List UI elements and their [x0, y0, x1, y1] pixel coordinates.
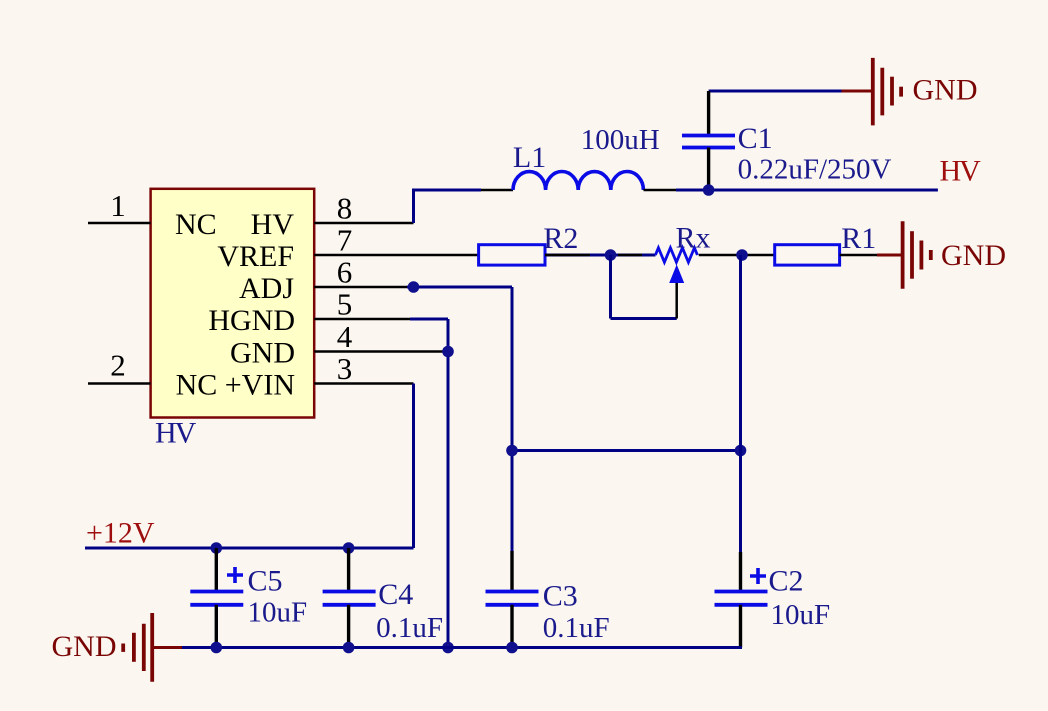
svg-text:GND: GND [913, 74, 978, 107]
svg-text:VREF: VREF [217, 240, 294, 273]
C3 bottom lead [510, 605, 513, 648]
ground GND right lead [877, 254, 903, 257]
C5 plus sign [227, 567, 243, 583]
wire HV net to label [676, 189, 938, 192]
svg-text:0.1uF: 0.1uF [543, 612, 610, 644]
capacitor C2 (polarized) [715, 592, 768, 605]
svg-text:R2: R2 [543, 222, 578, 255]
junction C1 / HV row [703, 184, 715, 196]
svg-text:7: 7 [337, 223, 353, 258]
C5 bottom lead [215, 605, 218, 648]
resistor R1 [775, 245, 840, 265]
wire +12V row [85, 547, 414, 550]
svg-text:HGND: HGND [208, 304, 295, 337]
C2 plus sign [750, 568, 766, 584]
svg-text:C3: C3 [543, 580, 578, 613]
svg-text:0.22uF/250V: 0.22uF/250V [738, 154, 892, 186]
capacitor C3 [486, 592, 539, 605]
pin 8 stub [314, 222, 413, 225]
svg-text:C4: C4 [378, 578, 413, 611]
svg-text:L1: L1 [513, 141, 546, 174]
ground GND right [903, 221, 931, 289]
svg-text:8: 8 [337, 191, 353, 226]
potentiometer Rx zigzag [655, 248, 697, 262]
svg-text:3: 3 [337, 351, 353, 386]
svg-text:2: 2 [110, 348, 126, 383]
wire ADJ net horizontal [407, 286, 512, 289]
svg-text:ADJ: ADJ [239, 272, 294, 305]
wire Rx left pin overlay [618, 254, 642, 257]
svg-text:6: 6 [337, 255, 353, 290]
wire C2 riser from R1 row [739, 255, 742, 552]
wire Rx to R1 [699, 254, 775, 257]
wire C1 top to GND [709, 90, 842, 93]
svg-text:C5: C5 [248, 565, 283, 598]
pin 2 stub [88, 382, 151, 385]
svg-text:R1: R1 [841, 222, 876, 255]
wire Rx wiper bottom run [611, 317, 677, 320]
svg-text:10uF: 10uF [771, 599, 831, 631]
pin 1 stub [88, 222, 151, 225]
C1 bottom lead [707, 148, 710, 191]
wire ADJ net drop to C3 [511, 287, 514, 551]
junction C4 bottom [343, 642, 355, 654]
junction mid row left [506, 445, 518, 457]
svg-text:10uF: 10uF [248, 597, 308, 629]
junction mid row right [735, 445, 747, 457]
pin 7 stub [314, 254, 478, 257]
wire R2 to Rx (navy base) [545, 254, 656, 257]
svg-text:NC: NC [175, 208, 217, 241]
junction R2/Rx wiper node [605, 249, 617, 261]
junction ADJ pin [408, 281, 420, 293]
svg-text:NC +VIN: NC +VIN [176, 369, 295, 402]
svg-text:C2: C2 [769, 565, 804, 598]
wire L1 right lead [644, 189, 677, 192]
pin 4 stub [314, 350, 448, 353]
wire L1 left lead [481, 189, 513, 192]
wire bottom ground row [182, 646, 742, 649]
ground GND bottom-left lead [152, 646, 182, 649]
wire HGND riser down [447, 319, 450, 648]
svg-text:0.1uF: 0.1uF [376, 612, 443, 644]
capacitor C1 [682, 136, 735, 148]
pin 6 stub [314, 286, 413, 289]
pin 5 stub [314, 318, 410, 321]
svg-text:1: 1 [110, 188, 126, 223]
inductor L1 [513, 172, 643, 191]
svg-text:HV: HV [155, 417, 197, 450]
svg-text:+12V: +12V [86, 517, 155, 550]
svg-text:4: 4 [337, 319, 353, 354]
ground GND top-right lead [842, 90, 873, 93]
junction HGND bottom [442, 642, 454, 654]
svg-text:C1: C1 [738, 122, 773, 155]
op-amp U1 body (HV converter IC) [151, 189, 315, 418]
svg-text:HV: HV [251, 208, 295, 241]
C2 bottom lead [739, 605, 742, 648]
Rx wiper arrow [669, 265, 684, 284]
junction HGND/GND pin [442, 346, 454, 358]
svg-text:GND: GND [941, 239, 1006, 272]
wire R2 right pin overlay [545, 254, 590, 257]
C3 top lead [510, 551, 513, 592]
wire +VIN riser down [412, 384, 415, 549]
junction Rx/R1/C2 node [736, 249, 748, 261]
svg-text:GND: GND [52, 630, 117, 663]
resistor R2 [479, 245, 545, 265]
svg-text:100uH: 100uH [581, 124, 660, 156]
C1 top lead [707, 91, 710, 136]
wire pin8 riser to L1 row [414, 190, 482, 223]
junction C5 top [211, 542, 223, 554]
svg-text:HV: HV [940, 155, 982, 188]
ground GND top-right [873, 58, 901, 126]
wire Rx wiper stem [675, 283, 678, 319]
C2 top lead [739, 552, 742, 592]
svg-text:GND: GND [230, 337, 295, 370]
junction C4 top [343, 542, 355, 554]
capacitor C4 [323, 592, 376, 605]
C5 top lead [215, 548, 218, 592]
C4 bottom lead [347, 605, 350, 648]
wire HGND corner [410, 318, 448, 321]
svg-text:Rx: Rx [676, 222, 711, 255]
wire Rx wiper drop [609, 255, 612, 319]
C4 top lead [347, 548, 350, 592]
wire R1 to GND [840, 254, 877, 257]
wire mid row C3 to C2 [512, 449, 741, 452]
pin 3 stub [314, 382, 413, 385]
ground GND bottom-left [123, 613, 152, 682]
capacitor C5 (polarized) [190, 592, 243, 605]
svg-text:5: 5 [337, 287, 353, 322]
junction C5 bottom [211, 642, 223, 654]
junction C3 bottom [506, 642, 518, 654]
